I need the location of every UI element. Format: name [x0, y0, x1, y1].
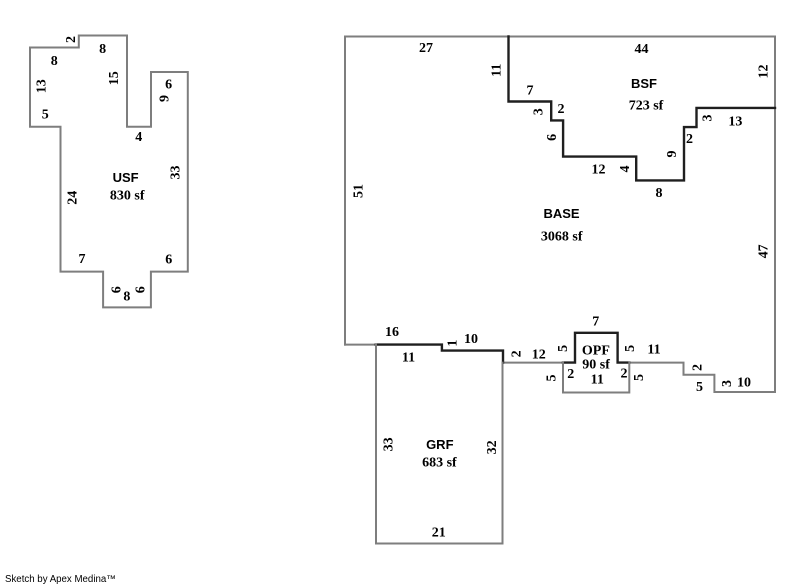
BASE bottom gray segment 12	[503, 362, 563, 364]
svg-text:12: 12	[532, 348, 546, 363]
svg-text:8: 8	[656, 186, 663, 201]
svg-text:2: 2	[510, 350, 525, 357]
svg-text:10: 10	[464, 332, 478, 347]
svg-text:USF: USF	[113, 170, 139, 185]
svg-text:3: 3	[720, 380, 735, 387]
svg-text:32: 32	[485, 440, 500, 454]
svg-text:BSF: BSF	[631, 76, 657, 91]
svg-text:7: 7	[592, 315, 599, 330]
svg-text:47: 47	[756, 244, 771, 258]
svg-text:13: 13	[728, 115, 742, 130]
BASE/GRF boundary black steps	[376, 345, 503, 363]
svg-text:830 sf: 830 sf	[110, 188, 145, 203]
svg-text:7: 7	[527, 84, 534, 99]
BSF boundary stepped line	[509, 37, 776, 181]
svg-text:6: 6	[165, 252, 172, 267]
svg-text:9: 9	[157, 95, 172, 102]
svg-text:2: 2	[567, 367, 574, 382]
svg-text:2: 2	[621, 367, 628, 382]
svg-text:11: 11	[402, 351, 415, 366]
svg-text:33: 33	[381, 437, 396, 451]
svg-text:6: 6	[165, 78, 172, 93]
svg-text:BASE: BASE	[543, 206, 579, 221]
svg-text:723 sf: 723 sf	[629, 99, 664, 114]
svg-text:12: 12	[592, 163, 606, 178]
svg-text:8: 8	[123, 290, 130, 305]
svg-text:27: 27	[419, 41, 433, 56]
svg-text:5: 5	[42, 107, 49, 122]
svg-text:5: 5	[545, 375, 560, 382]
svg-text:2: 2	[558, 102, 565, 117]
svg-text:33: 33	[169, 166, 184, 180]
svg-text:11: 11	[591, 373, 604, 388]
BASE outer outline	[345, 37, 775, 393]
svg-text:4: 4	[135, 130, 142, 145]
svg-text:GRF: GRF	[426, 437, 454, 452]
svg-text:3: 3	[701, 115, 716, 122]
svg-text:2: 2	[691, 364, 706, 371]
svg-text:2: 2	[686, 132, 693, 147]
BASE bottom-left gray segment	[345, 344, 376, 346]
svg-text:1: 1	[446, 340, 461, 347]
svg-text:8: 8	[51, 54, 58, 69]
svg-text:683 sf: 683 sf	[422, 455, 457, 470]
svg-text:5: 5	[623, 345, 638, 352]
GRF area outline	[376, 345, 503, 544]
svg-text:90 sf: 90 sf	[582, 358, 610, 373]
svg-text:5: 5	[632, 374, 647, 381]
svg-text:5: 5	[696, 380, 703, 395]
svg-text:11: 11	[647, 343, 660, 358]
svg-text:8: 8	[99, 42, 106, 57]
svg-text:21: 21	[432, 526, 446, 541]
svg-text:15: 15	[107, 71, 122, 85]
svg-text:3068 sf: 3068 sf	[541, 230, 583, 245]
svg-text:51: 51	[352, 184, 367, 198]
svg-text:6: 6	[545, 134, 560, 141]
USF area outline	[30, 36, 188, 308]
svg-text:11: 11	[490, 64, 505, 77]
svg-text:10: 10	[737, 376, 751, 391]
svg-text:7: 7	[79, 252, 86, 267]
svg-text:4: 4	[618, 166, 633, 173]
svg-text:OPF: OPF	[582, 343, 610, 358]
svg-text:6: 6	[134, 286, 149, 293]
svg-text:44: 44	[635, 42, 649, 57]
svg-text:2: 2	[64, 36, 79, 43]
svg-text:16: 16	[385, 325, 399, 340]
OPF lower box	[563, 363, 629, 393]
svg-text:24: 24	[66, 191, 81, 205]
svg-text:3: 3	[532, 108, 547, 115]
svg-text:6: 6	[110, 286, 125, 293]
svg-text:9: 9	[665, 151, 680, 158]
svg-text:5: 5	[556, 345, 571, 352]
svg-text:12: 12	[757, 65, 772, 79]
svg-text:Sketch by Apex Medina™: Sketch by Apex Medina™	[5, 574, 116, 585]
OPF upper box	[563, 333, 629, 363]
svg-text:13: 13	[35, 79, 50, 93]
